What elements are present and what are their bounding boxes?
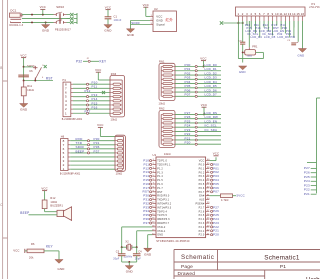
capacitor C4 20pF <box>133 247 142 262</box>
wire U2 GND pin <box>131 21 151 29</box>
wire GND rail from DC1 <box>22 21 54 23</box>
svg-text:P0.0: P0.0 <box>199 163 205 166</box>
svg-text:1: 1 <box>151 15 152 17</box>
resistor network PR1 10k <box>243 21 258 57</box>
svg-text:VCC: VCC <box>13 249 19 253</box>
svg-text:P0.3: P0.3 <box>199 175 205 178</box>
wire P1 pin16 to GND <box>298 21 307 57</box>
svg-text:P17: P17 <box>85 110 91 114</box>
resistor network RN1 10k <box>159 61 176 106</box>
svg-text:LCD_D4: LCD_D4 <box>251 35 263 39</box>
svg-text:Signal: Signal <box>156 23 165 27</box>
ground GND (key) <box>55 260 65 272</box>
svg-text:P2.4: P2.4 <box>199 218 205 221</box>
svg-text:T2/P1.0: T2/P1.0 <box>157 160 167 163</box>
svg-text:ALE: ALE <box>199 199 204 202</box>
svg-text:10kΩ: 10kΩ <box>159 102 166 105</box>
svg-text:GND: GND <box>126 270 134 274</box>
net labels right of U1 (P0x P2x) <box>211 162 220 236</box>
power jack DC1 <box>10 9 24 27</box>
svg-text:SD00: SD00 <box>131 21 139 25</box>
svg-text:P1.2: P1.2 <box>157 167 163 170</box>
wire KEY net <box>44 245 59 260</box>
svg-text:10kΩ: 10kΩ <box>164 153 171 156</box>
power VCC (key pull) <box>13 249 27 253</box>
power VCC (input) <box>40 5 46 14</box>
drawing frame left border <box>0 0 7 279</box>
ground GND (U2) <box>126 29 134 37</box>
svg-text:GND: GND <box>58 267 65 271</box>
svg-text:8: 8 <box>267 12 269 16</box>
svg-text:LCD_D5: LCD_D5 <box>264 35 276 39</box>
svg-text:11: 11 <box>279 12 283 16</box>
svg-text:WR#/P3.6: WR#/P3.6 <box>157 218 170 221</box>
resistor network RN3 10k <box>110 73 125 122</box>
svg-text:VCC: VCC <box>95 68 101 72</box>
svg-text:C6: C6 <box>29 70 33 73</box>
svg-text:GND: GND <box>157 234 163 237</box>
svg-text:BUZZER1: BUZZER1 <box>50 205 63 208</box>
svg-text:2: 2 <box>42 65 43 67</box>
svg-text:VCC: VCC <box>200 56 206 60</box>
resistor R1 4.7k on EA# <box>209 194 245 202</box>
svg-text:VCC: VCC <box>156 15 162 19</box>
svg-text:P1.3: P1.3 <box>157 171 163 174</box>
svg-text:R6: R6 <box>31 243 35 246</box>
svg-text:红外: 红外 <box>166 17 174 22</box>
svg-text:14: 14 <box>292 12 296 16</box>
svg-text:20k: 20k <box>29 257 34 260</box>
ground GND (crystal) <box>125 266 133 274</box>
svg-text:2: 2 <box>151 19 152 21</box>
svg-text:P12: P12 <box>85 89 91 93</box>
svg-text:P0.2: P0.2 <box>199 171 205 174</box>
svg-text:20pF: 20pF <box>113 258 120 261</box>
svg-text:P0.4: P0.4 <box>199 179 205 182</box>
svg-text:LCD_D6: LCD_D6 <box>278 35 290 39</box>
svg-text:P20: P20 <box>213 233 219 237</box>
svg-text:3: 3 <box>246 12 248 16</box>
svg-text:GND: GND <box>104 29 112 33</box>
svg-text:10kΩ: 10kΩ <box>27 89 34 92</box>
wire U2 Signal / net SD00 <box>131 21 150 25</box>
svg-text:20pF: 20pF <box>135 258 142 261</box>
svg-text:DC1: DC1 <box>10 9 16 13</box>
svg-text:PSEN#: PSEN# <box>195 202 204 205</box>
svg-text:Schematic1: Schematic1 <box>264 255 300 262</box>
resistor R12 100ohm <box>42 197 63 209</box>
svg-text:P1: P1 <box>280 264 286 270</box>
svg-text:VCC: VCC <box>199 160 205 163</box>
svg-text:1: 1 <box>65 111 67 115</box>
capacitor C6 <box>18 70 33 77</box>
svg-text:5VCC: 5VCC <box>237 194 245 198</box>
svg-text:VCC: VCC <box>201 103 207 107</box>
svg-text:P1.4: P1.4 <box>157 175 163 178</box>
wires RN1 to LCD data nets <box>175 63 221 97</box>
svg-text:100Ω: 100Ω <box>50 201 57 204</box>
switch SW16 PB12E09017 <box>54 5 72 31</box>
wire U1 GND pin <box>148 235 153 249</box>
svg-text:P2.5: P2.5 <box>199 214 205 217</box>
net labels left of U1 (P1x P3x RST) <box>143 159 152 225</box>
wire RST net <box>23 77 53 82</box>
svg-text:VCC: VCC <box>20 53 26 57</box>
svg-text:15: 15 <box>296 12 300 16</box>
svg-text:7: 7 <box>263 12 265 16</box>
svg-text:SW16: SW16 <box>56 5 64 9</box>
svg-text:Schematic: Schematic <box>181 254 214 261</box>
wire P1 pin15 with capacitor C9 <box>287 21 298 45</box>
pin header P1 pin stubs and numbers <box>238 12 305 21</box>
svg-text:VCC: VCC <box>40 5 46 9</box>
svg-text:P0.1: P0.1 <box>199 167 205 170</box>
svg-text:P37: P37 <box>143 221 149 225</box>
wire XTAL1 to crystal <box>137 231 153 247</box>
svg-text:1: 1 <box>63 167 65 171</box>
svg-text:P0.5: P0.5 <box>199 183 205 186</box>
svg-text:12: 12 <box>284 12 288 16</box>
svg-text:P11: P11 <box>92 85 98 89</box>
wire P1 pin1 net <box>220 21 244 59</box>
svg-text:P2.3: P2.3 <box>199 222 205 225</box>
svg-text:TXD/P3.1: TXD/P3.1 <box>157 199 169 202</box>
svg-text:10: 10 <box>275 12 279 16</box>
svg-text:16: 16 <box>301 12 305 16</box>
power VCC (RN3) <box>95 68 110 80</box>
crystal X2 12MHz <box>121 240 138 258</box>
microcontroller U1 STC89C52RC-40-PDIP40 <box>152 153 210 243</box>
wire crystal ground rail <box>122 261 137 266</box>
svg-text:C4: C4 <box>138 251 142 254</box>
svg-text:X2: X2 <box>125 240 129 243</box>
svg-text:C3: C3 <box>116 251 120 254</box>
svg-text:9: 9 <box>272 12 274 16</box>
svg-text:6: 6 <box>259 12 261 16</box>
svg-text:IIC_SDA: IIC_SDA <box>205 128 218 132</box>
svg-text:P1.7: P1.7 <box>157 187 163 190</box>
svg-text:RXD/P3.0: RXD/P3.0 <box>157 195 170 198</box>
wire middle from DC1 <box>22 18 70 20</box>
svg-text:C1: C1 <box>114 15 118 19</box>
svg-text:P07: P07 <box>213 190 219 194</box>
wires RN2 to LCD control nets <box>175 111 221 145</box>
svg-text:RST: RST <box>157 191 163 194</box>
wire R12 to speaker <box>45 209 57 212</box>
wires H6 to RN4 with net labels <box>70 137 115 169</box>
power VCC (C1) <box>105 5 111 16</box>
net BEEP to speaker <box>20 211 57 215</box>
svg-text:GND: GND <box>239 70 246 74</box>
svg-text:PB12E09017: PB12E09017 <box>55 29 71 32</box>
svg-text:P21: P21 <box>304 192 310 196</box>
svg-text:P1.6: P1.6 <box>157 183 163 186</box>
title block <box>174 250 320 279</box>
power VCC (RN1) <box>200 56 206 67</box>
IR receiver module U2 <box>150 7 176 31</box>
svg-text:10kΩ: 10kΩ <box>247 55 253 57</box>
svg-text:Drawed: Drawed <box>178 271 196 277</box>
svg-text:13: 13 <box>288 12 292 16</box>
ground GND (U1) <box>144 248 152 256</box>
power VCC (buzzer) <box>41 186 47 200</box>
svg-text:P16: P16 <box>92 105 98 109</box>
svg-text:VCC: VCC <box>97 123 103 127</box>
resistor network RN2 10k <box>159 108 175 157</box>
svg-text:R11: R11 <box>27 85 32 88</box>
wire PR1 loop to rail <box>238 52 263 58</box>
svg-text:P2.7: P2.7 <box>199 206 205 209</box>
svg-text:Page: Page <box>181 264 193 270</box>
power VCC (RN2) <box>201 103 207 115</box>
svg-text:GND: GND <box>20 108 28 112</box>
svg-text:U1: U1 <box>153 153 157 157</box>
wire P1 pin2 / GND net with capacitor C8 <box>239 21 246 63</box>
svg-text:2.54-1*16: 2.54-1*16 <box>309 7 320 9</box>
svg-text:P2.1: P2.1 <box>199 230 205 233</box>
svg-text:STC89C52RC-40-PDIP40: STC89C52RC-40-PDIP40 <box>156 240 190 243</box>
speaker BUZZER1 <box>57 207 72 221</box>
svg-text:P0.7: P0.7 <box>199 191 205 194</box>
svg-text:5: 5 <box>255 12 257 16</box>
ground GND (under P1 left) <box>239 66 247 74</box>
svg-text:P20: P20 <box>185 141 191 145</box>
svg-text:1: 1 <box>238 12 240 16</box>
wire XTAL2 to crystal <box>122 227 153 247</box>
svg-text:LCD_D7: LCD_D7 <box>205 93 218 97</box>
power VCC (U1) <box>209 152 219 161</box>
svg-text:4.7kΩ: 4.7kΩ <box>221 199 229 202</box>
svg-text:GND: GND <box>156 19 163 23</box>
power VCC (U2) <box>143 3 149 16</box>
capacitor C1 100nF <box>105 15 122 23</box>
svg-text:3: 3 <box>151 23 152 25</box>
ground GND (C1) <box>104 19 112 33</box>
ground GND (reset) <box>20 104 28 112</box>
resistor R11 10k <box>21 81 34 104</box>
svg-text:10kΩ: 10kΩ <box>116 173 123 176</box>
svg-text:VCC: VCC <box>143 3 149 7</box>
svg-text:T0/P3.4: T0/P3.4 <box>157 210 167 213</box>
capacitor C3 20pF <box>113 247 125 262</box>
resistor network RN4 10k <box>115 135 125 176</box>
net labels under P1 <box>245 21 294 39</box>
svg-text:P37: P37 <box>94 149 100 153</box>
ground GND (input) <box>42 22 50 32</box>
svg-text:P1.5: P1.5 <box>157 179 163 182</box>
power VCC (reset) <box>20 53 26 80</box>
svg-text:P2.6: P2.6 <box>199 210 205 213</box>
net labels column right edge (P2 bus) <box>304 98 320 196</box>
svg-text:P07: P07 <box>185 93 191 97</box>
svg-text:4: 4 <box>250 12 252 16</box>
svg-text:KEY: KEY <box>46 245 54 249</box>
pin header P1 2.54-1*16 <box>236 2 320 16</box>
svg-text:P1: P1 <box>312 2 316 6</box>
svg-text:EA#: EA# <box>199 195 205 198</box>
svg-text:INT0#/P3.2: INT0#/P3.2 <box>157 202 172 205</box>
svg-text:GND: GND <box>42 29 50 33</box>
switch SW13 <box>24 65 47 81</box>
svg-text:10kΩ: 10kΩ <box>111 118 118 121</box>
wire VCC rail from DC1 <box>22 14 54 16</box>
connector H6 B-2100R08P-A001 <box>60 136 81 176</box>
power VCC (RN4) <box>97 123 115 136</box>
svg-text:BEEP: BEEP <box>20 211 29 215</box>
svg-text:RD#/P3.7: RD#/P3.7 <box>157 222 169 225</box>
svg-text:2: 2 <box>242 12 244 16</box>
connector H1 B-2100R08P-A001 <box>62 79 83 121</box>
svg-text:KEY: KEY <box>100 60 108 64</box>
svg-text:T1/P3.5: T1/P3.5 <box>157 214 167 217</box>
svg-text:PR1: PR1 <box>252 46 258 49</box>
svg-text:B-2100R08P-A001: B-2100R08P-A001 <box>62 118 83 121</box>
svg-text:GND: GND <box>144 252 152 256</box>
wire U2 VCC pin <box>146 15 150 17</box>
svg-text:DC002-1.3: DC002-1.3 <box>10 24 24 27</box>
svg-text:4: 4 <box>42 77 43 79</box>
svg-text:VCC: VCC <box>105 5 111 9</box>
svg-text:B: B <box>0 66 2 70</box>
svg-text:R12: R12 <box>50 197 56 200</box>
wires H1 to RN3 with net labels P10-P17 <box>73 81 110 115</box>
svg-text:P2.2: P2.2 <box>199 226 205 229</box>
svg-text:GND: GND <box>298 53 305 57</box>
svg-text:U2: U2 <box>154 7 158 11</box>
svg-text:RST: RST <box>46 77 53 81</box>
svg-text:INT1#/P3.3: INT1#/P3.3 <box>157 206 172 209</box>
svg-text:P30: P30 <box>291 37 296 39</box>
svg-text:P2.0: P2.0 <box>199 234 205 237</box>
svg-text:XTAL2: XTAL2 <box>157 226 166 229</box>
svg-text:P0.6: P0.6 <box>199 187 205 190</box>
svg-text:VCC: VCC <box>41 186 47 190</box>
resistor R6 20k <box>27 243 44 260</box>
svg-text:BEEP: BEEP <box>76 149 85 153</box>
svg-text:VCC: VCC <box>213 152 219 156</box>
svg-text:XTAL1: XTAL1 <box>157 230 166 233</box>
svg-text:GND: GND <box>127 33 135 37</box>
svg-text:100nF: 100nF <box>114 19 122 22</box>
svg-text:B-2100R08P-A001: B-2100R08P-A001 <box>60 173 81 176</box>
connector pins (green) right of SW16 <box>67 13 78 24</box>
svg-text:P32: P32 <box>76 60 82 64</box>
net P32 jumper to KEY <box>76 58 107 64</box>
svg-text:T2EX/P1.1: T2EX/P1.1 <box>157 163 171 166</box>
